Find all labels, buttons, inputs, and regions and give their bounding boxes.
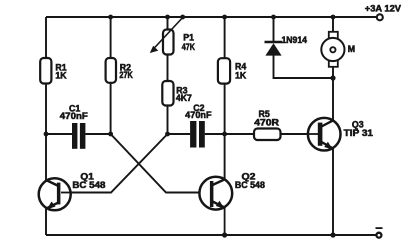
svg-text:1K: 1K	[235, 70, 247, 80]
svg-text:+3A 12V: +3A 12V	[365, 3, 401, 13]
svg-text:TIP 31: TIP 31	[344, 128, 373, 138]
svg-text:4K7: 4K7	[176, 93, 192, 103]
svg-text:BC 548: BC 548	[235, 180, 265, 190]
svg-text:1K: 1K	[55, 70, 67, 80]
svg-text:47K: 47K	[182, 42, 196, 52]
svg-text:470R: 470R	[254, 118, 279, 128]
svg-text:470nF: 470nF	[185, 110, 212, 120]
svg-text:1N914: 1N914	[282, 35, 308, 45]
svg-text:470nF: 470nF	[60, 111, 89, 121]
svg-text:M: M	[348, 44, 355, 54]
svg-text:BC 548: BC 548	[72, 180, 105, 190]
svg-text:27K: 27K	[119, 70, 133, 80]
